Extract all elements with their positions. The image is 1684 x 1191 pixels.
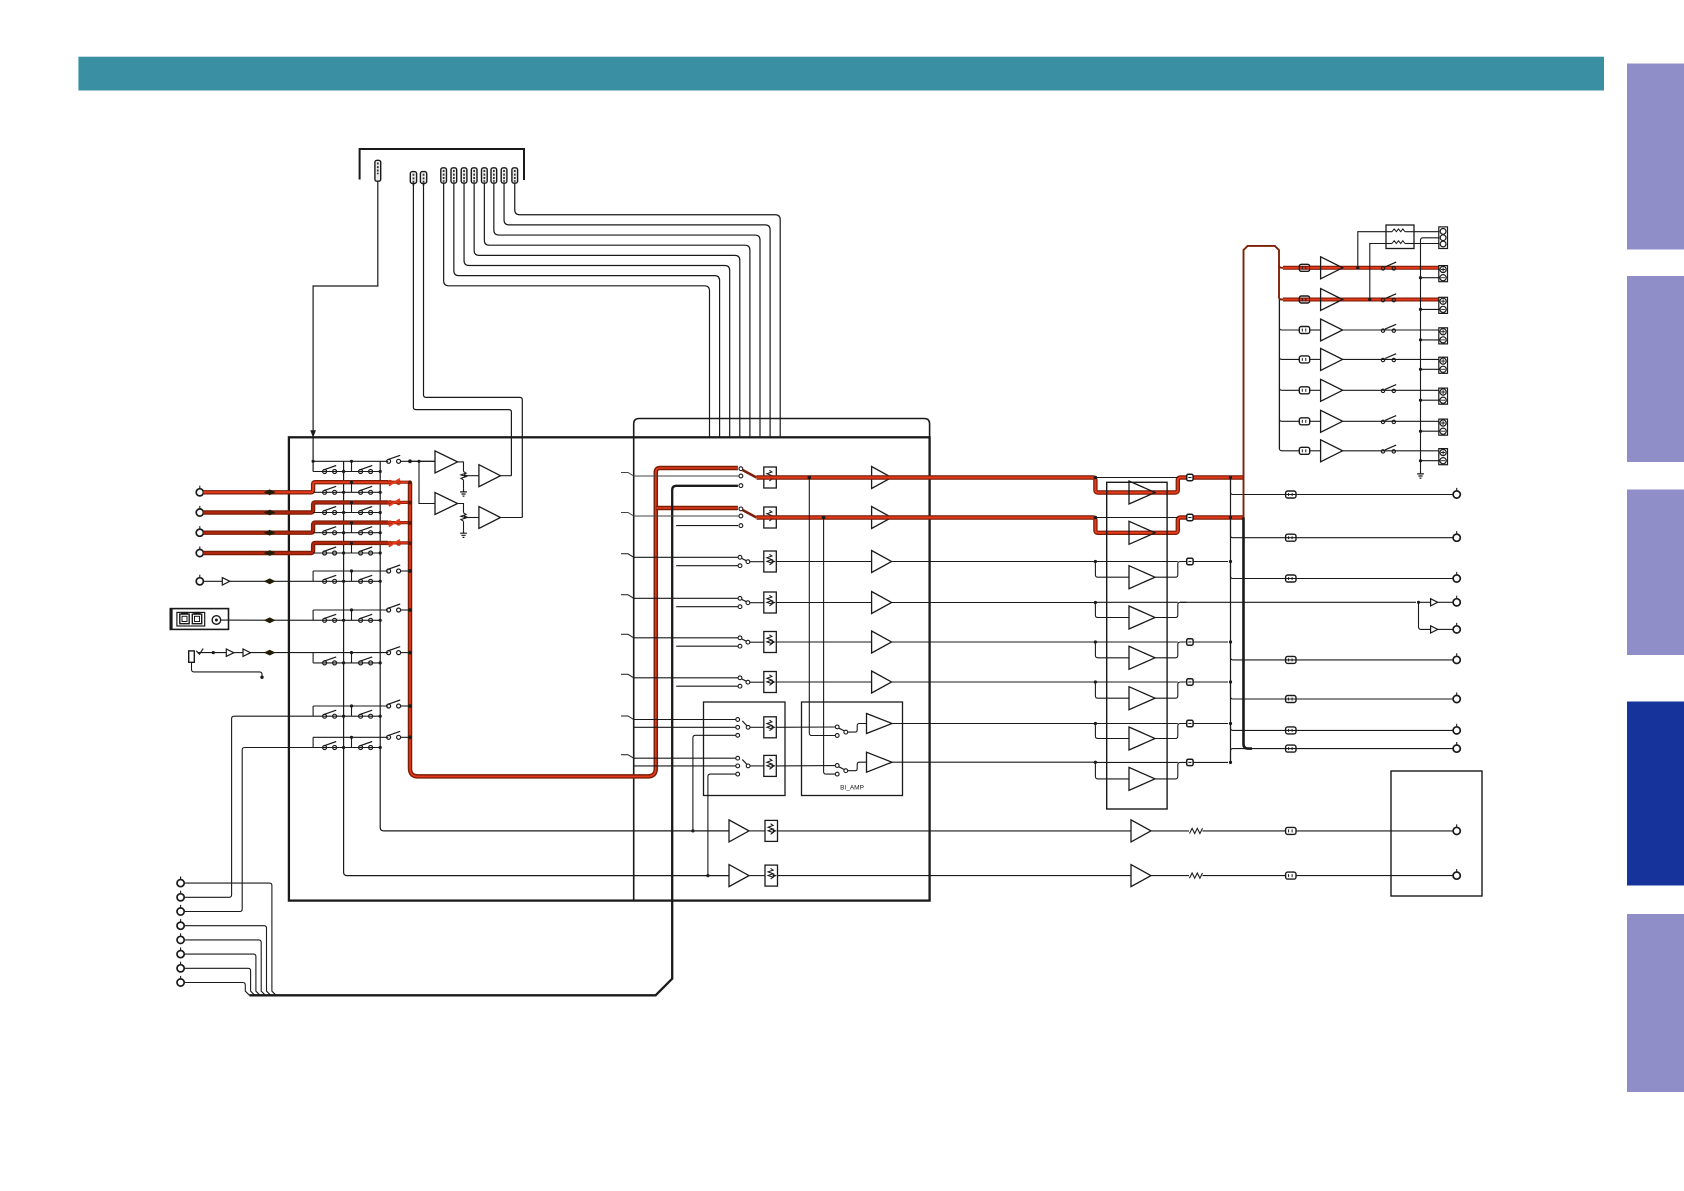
sub out 1 filter: [1190, 828, 1203, 833]
wire T3 out: [458, 504, 464, 513]
buffer amp B1: [872, 467, 892, 489]
multi-ch input jack 4: [177, 922, 184, 929]
op-amp T4: [479, 507, 501, 529]
op-amp T1: [435, 451, 458, 473]
col3 out link row 8: [400, 705, 410, 707]
wire PA8 out: [1155, 762, 1187, 779]
raised line row 7: [313, 652, 388, 654]
multi-ch wire 6: [184, 954, 260, 995]
connector J3 (rec out R): [420, 172, 426, 184]
row5 line: [750, 641, 764, 643]
power amp PA3: [1129, 566, 1155, 589]
speaker terminal pair 1: [1439, 266, 1448, 282]
red bus junction row 9: [408, 735, 412, 739]
wire pre-out row 5: [1231, 642, 1454, 660]
buffer amp B: [243, 649, 251, 656]
connector J8 (input 5): [482, 168, 488, 183]
row8 switch arm: [742, 760, 747, 765]
speaker switch 5: [1381, 389, 1384, 392]
sub row 1 amp: [729, 820, 749, 842]
wire VC6 out: [777, 681, 872, 683]
row6 top feeder: [634, 677, 738, 679]
col3 out link row 6: [400, 609, 410, 611]
speaker switch 1: [1381, 267, 1384, 270]
wire to matrix: [251, 652, 314, 654]
bi-amp amp L: [867, 714, 893, 734]
wire sub out 1 c: [1296, 830, 1453, 832]
speaker relay connector 6: [1187, 679, 1193, 685]
multi-ch wire 2: [184, 716, 380, 897]
selector switch col2 row 6: [359, 618, 363, 622]
speaker feed branch: [1279, 419, 1299, 422]
red bus junction row 1: [408, 480, 412, 484]
connector J9 (input 6): [491, 168, 497, 183]
center pre-out jack 2: [1453, 626, 1460, 633]
signal direction marker: [264, 617, 276, 623]
junction dots row 4: [342, 551, 345, 554]
bi-amp box: [802, 702, 903, 796]
junction red L: [808, 476, 812, 480]
pre-out jack 6: [1453, 695, 1460, 702]
speaker feed branch: [1279, 328, 1299, 331]
center buffer 1: [1419, 601, 1431, 603]
raised line row 8: [313, 705, 388, 707]
raised stub row 5: [312, 571, 314, 581]
row3 input contacts: [738, 555, 742, 559]
sub out 2 connector: [1286, 872, 1296, 879]
selector switch col2 row 3: [359, 531, 363, 535]
ground V1: [463, 480, 465, 489]
red bus junction row 3: [408, 521, 412, 525]
arrow into main box: [310, 430, 316, 437]
direct bus branch: [676, 525, 738, 527]
sub out 1 connector: [1286, 827, 1296, 834]
selector switch col2 row 0: [359, 470, 363, 474]
pre-out connector 1: [1286, 491, 1296, 498]
wire pre-out row 8: [1231, 749, 1454, 763]
row8 input contacts: [736, 756, 740, 760]
col3 out link row 7: [400, 652, 410, 654]
wire speaker row 5: [1310, 389, 1321, 391]
volume control VC7: [764, 717, 777, 738]
speaker connector 3: [1299, 327, 1309, 334]
wire sub out 1 b: [1203, 830, 1286, 832]
wire row6 to power amp: [892, 682, 1129, 698]
signal direction marker: [264, 550, 276, 556]
speaker switch 6: [1381, 420, 1384, 423]
selector switch col3 row 8: [387, 704, 391, 708]
speaker select sub box: [704, 702, 786, 796]
junction dots row 9: [342, 746, 345, 749]
speaker terminal pair 3: [1439, 328, 1448, 344]
row6 line: [750, 681, 764, 683]
subwoofer box: [1391, 771, 1482, 896]
selector switch col1 row 7: [323, 661, 327, 665]
red trace input 4: [203, 543, 388, 553]
speaker relay connector 5: [1187, 639, 1193, 645]
wire out row8: [1193, 761, 1228, 763]
center pre-out jack: [1453, 599, 1460, 606]
phones mini jack: [189, 651, 195, 662]
speaker switch 2: [1381, 298, 1384, 301]
row2 mid feeder: [634, 515, 739, 517]
pre-out connector 7: [1286, 727, 1296, 734]
buffer amp B5: [872, 631, 892, 653]
selector switch col1 row 9: [323, 746, 327, 750]
matrix main line row 1: [313, 491, 380, 493]
selector switch col3 row 4 (closed): [388, 541, 392, 545]
selector switch col2 row 8: [359, 714, 363, 718]
red trace input 3: [203, 523, 388, 533]
power amp PA2: [1129, 521, 1155, 544]
ground symbol speakers: [1417, 471, 1424, 478]
multi-ch wire 7: [184, 968, 255, 995]
wire V1 out: [467, 475, 479, 477]
speaker relay connector 1: [1187, 474, 1193, 480]
volume control VC6: [764, 672, 777, 693]
red bus junction row 0: [408, 459, 412, 463]
wire pre-out row 7: [1231, 724, 1454, 731]
speaker relay amp 7: [1321, 440, 1343, 462]
wire pre-out row 1: [1231, 478, 1454, 495]
red trace col3 switch link 2: [388, 501, 410, 504]
input jack IN2: [196, 509, 203, 516]
raised line row 6: [313, 609, 388, 611]
row A vertical link: [312, 437, 314, 471]
speaker relay connector 8: [1187, 759, 1193, 765]
selector switch col2 row 9: [359, 746, 363, 750]
pre-out connector 5: [1286, 656, 1296, 663]
bus line B1: [344, 461, 729, 875]
link stub row 5: [351, 571, 353, 581]
direct bus: [250, 486, 738, 996]
optical port 1: [180, 614, 189, 624]
junction: [1094, 560, 1097, 563]
buffer amp B3: [872, 551, 892, 573]
amp bypass line row 3: [1096, 561, 1178, 563]
junction: [691, 829, 694, 832]
level pot V1: [461, 472, 466, 481]
pre-out jack 1: [1453, 491, 1460, 498]
red branch front L speaker: [1283, 266, 1321, 270]
speaker terminal pair 2: [1439, 297, 1448, 313]
junction: [1094, 680, 1097, 683]
row5 input contacts: [738, 636, 742, 640]
speaker feed branch: [1279, 357, 1299, 360]
wire J1 to matrix bus: [313, 181, 378, 436]
wire pre-out row 2: [1231, 518, 1454, 538]
amp bypass line row 4: [1096, 601, 1178, 603]
row7 direct feed: [693, 735, 736, 831]
terminal ground link 5: [1421, 399, 1440, 401]
bi-amp switch L: [835, 725, 839, 729]
row A main line: [313, 471, 380, 473]
junction dots row 0: [342, 470, 345, 473]
red trace input 2: [203, 502, 388, 512]
row3 switch arm: [742, 559, 746, 561]
amp bypass line row 1: [1096, 477, 1178, 479]
wire sub1 long: [778, 830, 1131, 832]
junction: [1229, 640, 1232, 643]
selector switch col1 row 6: [323, 618, 327, 622]
pre-out connector 3: [1286, 575, 1296, 582]
resistor R2: [1392, 241, 1405, 244]
red bus vertical: [410, 468, 738, 776]
impedance resistor box: [1386, 225, 1414, 249]
row7 feeders: [634, 719, 736, 721]
wire PA5 out: [1155, 642, 1187, 658]
red bus junction row 5: [408, 569, 412, 573]
junction dots row 6: [342, 619, 345, 622]
link stub row 4: [351, 543, 353, 553]
junction: [1417, 601, 1420, 604]
terminal ground link 2: [1421, 308, 1440, 310]
power amp PA4: [1129, 606, 1155, 629]
red branch front R speaker: [1283, 298, 1321, 302]
volume control VC1: [764, 467, 777, 488]
center buffer 2: [1431, 626, 1438, 633]
sub out 2 amp: [1131, 865, 1151, 887]
speaker connector 1: [1299, 264, 1309, 271]
wire seg: [234, 652, 243, 654]
junction: [1094, 601, 1097, 604]
selector switch col1 row 4: [323, 551, 327, 555]
pre-out connector 2: [1286, 534, 1296, 541]
wire out row6: [1193, 681, 1228, 683]
pre-out connector 8: [1286, 745, 1296, 752]
speaker relay amp 5: [1321, 379, 1343, 401]
speaker terminal pair 6: [1439, 419, 1448, 435]
selector switch col3 row 2 (closed): [388, 501, 392, 505]
col3 out link row 9: [400, 736, 410, 738]
red trace front L amp out: [1129, 478, 1187, 493]
selector switch col3 row 0: [387, 459, 391, 463]
power amp PA7: [1129, 727, 1155, 750]
selector switch col3 row 1 (closed): [388, 480, 392, 484]
wire: [1438, 601, 1453, 603]
junction dots row 8: [342, 715, 345, 718]
buffer amp A: [226, 649, 234, 656]
speaker relay connector 7: [1187, 720, 1193, 726]
amp bypass line row 5: [1096, 641, 1178, 643]
row1 switch arm: [743, 470, 757, 478]
wire R1 feed: [1358, 232, 1386, 268]
connector J11 (input 8): [512, 168, 518, 183]
wire center row: [1180, 601, 1416, 603]
selector switch col3 row 5: [387, 569, 391, 573]
junction dots row 7: [342, 661, 345, 664]
power amp box: [1107, 482, 1167, 809]
function box partition: [633, 437, 635, 900]
speaker terminal pair 7: [1439, 449, 1448, 465]
multi-ch input jack 7: [177, 965, 184, 972]
connector J2 (rec out L): [410, 172, 416, 184]
wire bi-amp L out: [892, 724, 1129, 739]
junction dots row 1: [342, 491, 345, 494]
terminal ground link 7: [1421, 460, 1440, 462]
raised stub row 6: [312, 610, 314, 620]
row2 input contacts: [739, 507, 743, 511]
connector J6 (input 3): [461, 168, 467, 183]
link stub row 3: [351, 523, 353, 533]
selector switch col1 row 8: [323, 714, 327, 718]
selector switch col2 row 7: [359, 661, 363, 665]
direct bus branch: [676, 565, 738, 567]
connector J5 (input 2): [451, 168, 457, 183]
junction dots row 5: [342, 580, 345, 583]
svg-text:BI_AMP: BI_AMP: [840, 785, 864, 792]
op-amp T3: [435, 493, 458, 515]
amp bypass line row 7: [1096, 723, 1178, 725]
wire sub out 2: [1151, 875, 1189, 877]
speaker relay amp 4: [1321, 348, 1343, 370]
speaker relay amp 2: [1321, 289, 1343, 311]
direct bus branch: [676, 645, 738, 647]
junction: [1094, 640, 1097, 643]
row1 input contacts: [739, 467, 743, 471]
power amp PA6: [1129, 687, 1155, 710]
speaker feed branch: [1279, 388, 1299, 391]
multi-ch input jack 2: [177, 894, 184, 901]
multi-ch wire 3: [184, 748, 380, 912]
speaker relay connector 3: [1187, 558, 1193, 564]
wire bus line 2 from J5: [454, 183, 720, 437]
wire bus line 6 from J9: [494, 183, 760, 437]
matrix main line row 2: [313, 512, 380, 514]
wire bi-amp jog L: [848, 724, 867, 733]
wire V2 out: [467, 517, 479, 519]
sidebar tab 3: [1627, 490, 1684, 656]
signal direction marker: [264, 530, 276, 536]
speaker terminal pair 4: [1439, 357, 1448, 373]
main input selector box: [289, 437, 930, 900]
junction: [417, 460, 420, 463]
wire tuner line: [203, 580, 222, 582]
wire R2 feed: [1370, 244, 1386, 300]
speaker switch 7: [1381, 450, 1384, 453]
ground V2: [463, 521, 465, 530]
amp bypass line row 6: [1096, 681, 1178, 683]
row4 switch arm: [742, 600, 746, 602]
selector switch col1 row 2: [323, 511, 327, 515]
direct bus branch: [676, 685, 738, 687]
selector switch col2 row 2: [359, 511, 363, 515]
wire R1 out: [1414, 231, 1439, 233]
wire T2 out to rec: [501, 475, 512, 477]
op-amp T2: [479, 465, 501, 487]
speaker switch 4: [1381, 358, 1384, 361]
connector J7 (input 4): [471, 168, 477, 183]
sidebar tab 2: [1627, 276, 1684, 462]
resistor R1: [1392, 229, 1405, 232]
raised line row 9: [313, 736, 388, 738]
red trace front R amp out: [1129, 518, 1187, 533]
raised stub row 8: [312, 706, 314, 716]
row3 line: [750, 561, 764, 563]
row4 input contacts: [738, 596, 742, 600]
wire sub out 2 c: [1296, 875, 1453, 877]
tuner buffer amp: [222, 578, 230, 585]
wire pre-out row 6: [1231, 682, 1454, 699]
rec select line: [410, 460, 435, 462]
red bus junction row 4: [408, 541, 412, 545]
tape loop wire: [634, 419, 930, 438]
wire bus line 4 from J7: [474, 183, 740, 437]
junction red R: [822, 516, 826, 520]
pre-out bus thin: [1230, 478, 1232, 764]
speaker relay amp 3: [1321, 319, 1343, 341]
terminal ground link 1: [1421, 277, 1440, 279]
red bus junction row 7: [408, 651, 412, 655]
connector J1 (digital in): [375, 160, 381, 181]
sidebar tab 4 (active): [1627, 702, 1684, 886]
buffer amp B6: [872, 671, 892, 693]
multi-ch input jack 8: [177, 979, 184, 986]
buffer amp B2: [872, 507, 892, 529]
wire bus line 3 from J6: [464, 183, 730, 437]
red bus junction row 8: [408, 704, 412, 708]
junction: [1229, 761, 1232, 764]
selector switch col1 row 1: [323, 490, 327, 494]
power amp PA1: [1129, 481, 1155, 504]
volume control VC2: [764, 507, 777, 528]
speaker relay amp 6: [1321, 410, 1343, 432]
junction bi-amp outs: [1094, 722, 1097, 725]
selector switch col3 row 3 (closed): [388, 521, 392, 525]
wire PA3 out: [1155, 562, 1187, 578]
speaker connector 6: [1299, 418, 1309, 425]
row5 switch arm: [742, 639, 746, 641]
red trace speaker row 1: [1310, 266, 1439, 270]
wire VC3 out: [777, 561, 872, 563]
jack sleeve wire: [192, 662, 263, 675]
multi-ch input jack 1: [177, 880, 184, 887]
matrix main line row 4: [313, 552, 380, 554]
col3 out link row 5: [400, 570, 410, 572]
buffer amp B4: [872, 592, 892, 614]
junction dots row 3: [342, 531, 345, 534]
sub out 1 amp: [1131, 820, 1151, 842]
wire jack line: [198, 652, 227, 654]
row7 switch arm: [742, 721, 747, 726]
wire: [749, 830, 765, 832]
wire bi-amp jog R: [848, 762, 867, 771]
selector switch col1 row 3: [323, 531, 327, 535]
wire speaker row 3: [1310, 329, 1321, 331]
link stub row 2: [351, 503, 353, 513]
volume control VC3: [764, 551, 777, 572]
speaker connector 5: [1299, 387, 1309, 394]
wire bi-amp R out: [892, 762, 1129, 779]
red trace front R: [757, 518, 1130, 533]
row1 mid feeder: [634, 475, 739, 477]
phones drop loop: [313, 662, 380, 664]
junction red pre L: [1229, 476, 1232, 479]
wire PA6 out: [1155, 682, 1187, 698]
wire VC4 out: [777, 602, 872, 604]
speaker relay amp 1: [1321, 257, 1343, 279]
terminal ground link 3: [1421, 339, 1440, 341]
row A raised line: [313, 460, 388, 462]
sub out 2 jack: [1453, 872, 1460, 879]
wire pre-out row 3: [1231, 562, 1454, 579]
wire VC8 out: [777, 765, 836, 767]
sub out 2 filter: [1190, 873, 1203, 878]
multi-ch wire 1: [184, 883, 276, 995]
optical port frame: [177, 612, 205, 626]
junction: [1229, 680, 1232, 683]
direct bus branch: [676, 606, 738, 608]
